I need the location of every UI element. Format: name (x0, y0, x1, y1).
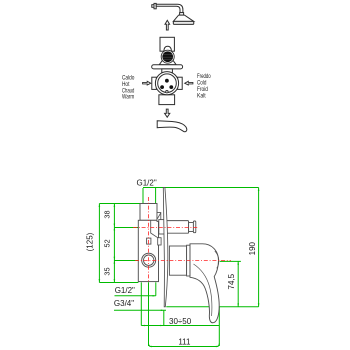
svg-text:Warm: Warm (122, 95, 134, 101)
svg-text:G3/4": G3/4" (114, 299, 134, 308)
svg-text:Hot: Hot (122, 82, 130, 88)
valve dots (165, 79, 169, 83)
svg-text:74,5: 74,5 (227, 273, 236, 289)
svg-text:111: 111 (178, 337, 191, 346)
svg-text:Cold: Cold (197, 81, 206, 87)
shower arm with wall flange (152, 3, 183, 12)
svg-text:Chaud: Chaud (122, 88, 134, 94)
shower head connector (180, 13, 184, 16)
body right tab mid (158, 238, 161, 245)
screw rect (147, 238, 151, 244)
valve bottom connection (159, 95, 175, 105)
label cold (Freddo/Cold/Froid/Kalt) (197, 74, 211, 99)
svg-text:Froid: Froid (197, 87, 208, 93)
svg-text:38: 38 (103, 210, 112, 218)
svg-text:Caldo: Caldo (122, 76, 135, 82)
dim 74,5 (220, 261, 241, 306)
dim 30÷50 (141, 325, 219, 327)
dim 190 (258, 188, 260, 307)
extension lines below body (141, 282, 219, 346)
knob bump (164, 46, 172, 51)
red centerline vertical (148, 197, 150, 282)
down arrow (165, 109, 170, 117)
svg-text:52: 52 (103, 239, 112, 247)
handle blade highlight (194, 264, 212, 316)
tub spout (157, 121, 187, 132)
handle (190, 244, 219, 323)
right inlet block (178, 77, 183, 89)
chamfer (157, 213, 160, 219)
hot inlet arrow (143, 81, 151, 85)
svg-text:35: 35 (103, 267, 112, 275)
valve top connection (160, 37, 174, 51)
svg-text:(125): (125) (85, 232, 94, 251)
dim G1/2 top extension lines (143, 188, 259, 204)
knurled knob (black) (161, 50, 174, 63)
body port circle (142, 253, 156, 267)
top outlet pipe (165, 221, 189, 234)
bottom extension line (166, 306, 258, 308)
svg-text:Freddo: Freddo (197, 74, 211, 80)
escutcheon plate (edge-on) (163, 187, 168, 306)
label hot (Caldo/Hot/Chaud/Warm) (122, 76, 135, 101)
body right tab top (157, 213, 161, 222)
valve cross bar (152, 65, 183, 69)
valve main body circle (155, 72, 178, 95)
dim 111 (149, 344, 220, 347)
svg-text:190: 190 (248, 241, 257, 255)
top outlet boss (159, 220, 166, 234)
cartridge collar (169, 246, 186, 275)
red centerline cartridge (135, 260, 231, 262)
svg-text:G1/2": G1/2" (137, 179, 157, 188)
dim (125) (98, 204, 100, 283)
handle dome highlight (215, 251, 219, 268)
body inner bore line (151, 221, 158, 238)
svg-text:Kalt: Kalt (197, 93, 206, 99)
valve body top pipe (140, 204, 157, 221)
red centerline top outlet (133, 227, 199, 229)
up arrow (165, 20, 170, 30)
cold inlet arrow (185, 81, 193, 85)
lower neck (162, 69, 173, 73)
svg-text:30÷50: 30÷50 (169, 317, 192, 326)
small port circle (166, 91, 168, 93)
valve neck (159, 61, 176, 65)
svg-text:G1/2": G1/2" (115, 286, 135, 295)
left inlet block (152, 77, 157, 89)
dim chain 38/52/35 (99, 204, 141, 283)
valve body main (138, 220, 158, 281)
shower head (173, 15, 194, 21)
